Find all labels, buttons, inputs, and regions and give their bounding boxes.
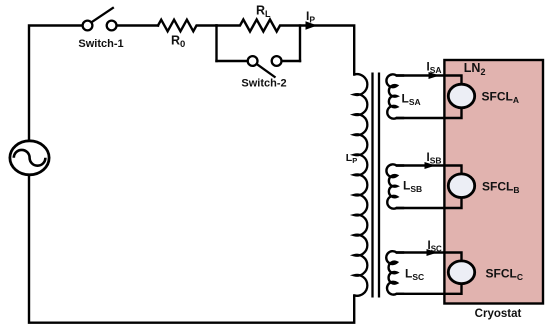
svg-text:Switch-1: Switch-1 <box>78 38 123 50</box>
svg-text:Switch-2: Switch-2 <box>241 78 286 90</box>
svg-text:Cryostat: Cryostat <box>475 308 522 320</box>
